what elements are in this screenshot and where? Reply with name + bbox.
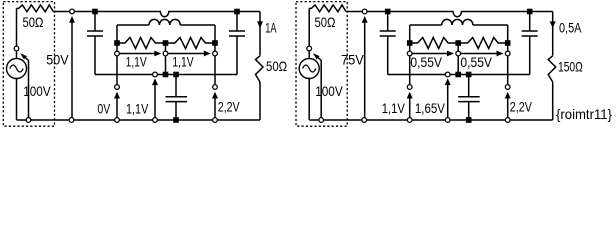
svg-text:50V: 50V <box>46 51 69 67</box>
junction top rail / C1 (right) <box>385 9 391 15</box>
wire node B stub (left) <box>214 43 216 51</box>
svg-text:1,1V: 1,1V <box>126 54 148 70</box>
wire node A lower vertical (left) <box>116 56 118 84</box>
current arrow 1A on load drop (left) <box>257 21 263 28</box>
source block dashed boundary (right) <box>296 2 347 127</box>
terminal arrow tail B (left) <box>213 118 218 123</box>
capacitor C1 left shunt (right) <box>387 14 389 31</box>
voltage arrow 50V line (left) <box>71 18 73 120</box>
voltage arrow 0,55V A-to-M (right) <box>412 53 450 55</box>
wire top rail with hop (left) <box>53 12 260 17</box>
wire mid horizontal (right) <box>388 74 530 76</box>
wire mid horizontal (left) <box>95 74 237 76</box>
resistor Ra series (right) <box>410 38 459 49</box>
wire node M to mid line (left) <box>165 56 167 75</box>
wire load bottom drop (left) <box>259 82 261 120</box>
voltage arrow 1,1V at mid line (left) <box>154 80 156 120</box>
wire node M to mid line (right) <box>457 56 459 75</box>
wire node A stub (right) <box>409 43 411 51</box>
test point B (left) <box>213 85 218 90</box>
wire load bottom drop (right) <box>552 82 554 120</box>
test point mid line (right) <box>445 72 450 77</box>
junction node M (right) <box>455 40 461 46</box>
wire node A stub (left) <box>116 43 118 51</box>
svg-text:75V: 75V <box>341 51 364 67</box>
wire load top drop (left) <box>259 12 261 56</box>
wire source bottom lead (left) <box>16 79 18 121</box>
resistor Ra series (left) <box>117 38 166 49</box>
terminal source/resistor node (left) <box>14 46 19 51</box>
svg-text:0V: 0V <box>97 101 110 117</box>
wire source top lead (left) <box>16 8 18 58</box>
capacitor C2 right shunt (right) <box>529 14 531 31</box>
svg-text:50Ω: 50Ω <box>315 14 336 30</box>
junction node A (left) <box>114 40 120 46</box>
voltage arrow 1,1V M-to-B (left) <box>168 53 207 55</box>
junction node B (left) <box>212 40 218 46</box>
junction top rail / C2 (left) <box>234 9 240 15</box>
node B circle (right) <box>505 51 510 56</box>
junction mid line / node M (left) <box>163 72 169 78</box>
svg-text:1,1V: 1,1V <box>126 101 149 117</box>
junction mid line / C3 (right) <box>466 72 472 78</box>
resistor Rb series (right) <box>458 38 508 49</box>
svg-text:50Ω: 50Ω <box>23 14 44 30</box>
svg-text:0,55V: 0,55V <box>410 54 442 70</box>
capacitor C1 left shunt (left) <box>94 14 96 31</box>
svg-text:100V: 100V <box>23 83 51 99</box>
inductor L coil (left) <box>149 19 180 25</box>
wire top rail with hop (right) <box>346 12 553 17</box>
wire bottom rail (left) <box>17 119 261 121</box>
node A circle (right) <box>407 51 412 56</box>
wire node B stub (right) <box>507 43 509 51</box>
voltage arrow 75V line (right) <box>364 18 366 120</box>
test point A (left) <box>115 85 120 90</box>
terminal output bottom (right) <box>362 118 367 123</box>
junction top rail / C1 (left) <box>92 9 98 15</box>
current arrow 0,5A on load drop (right) <box>550 21 556 28</box>
svg-text:1,1V: 1,1V <box>172 54 194 70</box>
voltage arrow 100V bent line (left) <box>22 55 29 121</box>
junction top rail / C2 (right) <box>527 9 533 15</box>
load resistor 50&#937; (left) <box>256 56 264 82</box>
wire node A lower vertical (right) <box>409 56 411 84</box>
node B circle (left) <box>213 51 218 56</box>
test point A (right) <box>407 85 412 90</box>
voltage arrow 0,55V M-to-B (right) <box>461 53 500 55</box>
voltage arrow 100V bent line (right) <box>315 55 322 121</box>
svg-text:0,55V: 0,55V <box>460 54 492 70</box>
terminal output top (left) <box>70 9 75 14</box>
wire inner box top-left (right) <box>410 24 442 26</box>
svg-text:2,2V: 2,2V <box>218 98 240 114</box>
voltage arrow 2,2V at node B (right) <box>507 94 509 121</box>
terminal 100V arrow tail (left) <box>26 118 31 123</box>
svg-text:1A: 1A <box>265 20 277 36</box>
AC source 100V circle (right) <box>299 59 319 79</box>
voltage arrow 1,1V A-to-M (left) <box>120 53 158 55</box>
AC source 100V circle (left) <box>7 59 27 79</box>
svg-text:{roimtr11}: {roimtr11} <box>556 106 612 122</box>
voltage arrow 2,2V at node B (left) <box>214 94 216 121</box>
node A circle (left) <box>115 51 120 56</box>
junction bottom rail / C3 (left) <box>173 117 179 123</box>
resistor 50&#937; source internal (right) <box>309 5 346 12</box>
test point B (right) <box>505 85 510 90</box>
terminal 100V arrow tail (right) <box>319 118 324 123</box>
terminal arrow tail A (left) <box>115 118 120 123</box>
wire inner box left side (right) <box>409 25 411 43</box>
junction mid line / node M (right) <box>455 72 461 78</box>
wire inner box top-left (left) <box>117 24 149 26</box>
terminal output bottom (left) <box>69 118 74 123</box>
wire inner box top-right (left) <box>180 24 215 26</box>
terminal source/resistor node (right) <box>307 46 312 51</box>
terminal arrow tail mid (right) <box>445 118 450 123</box>
svg-text:1,65V: 1,65V <box>415 100 446 116</box>
inductor L coil (right) <box>442 19 473 25</box>
junction bottom rail / C3 (right) <box>466 117 472 123</box>
svg-text:1,1V: 1,1V <box>382 100 406 116</box>
junction node M (left) <box>163 40 169 46</box>
capacitor C3 bottom (left) <box>175 75 177 97</box>
resistor Rb series (left) <box>166 38 216 49</box>
junction node A (right) <box>407 40 413 46</box>
node M circle (right) <box>456 51 461 56</box>
wire node M stub (right) <box>457 43 459 51</box>
svg-text:50Ω: 50Ω <box>266 58 287 74</box>
svg-text:2,2V: 2,2V <box>510 98 533 114</box>
wire load top drop (right) <box>552 12 554 56</box>
source block dashed boundary (left) <box>3 2 54 127</box>
wire node B lower vertical (left) <box>214 56 216 84</box>
wire node B lower vertical (right) <box>507 56 509 84</box>
wire inner box right side (left) <box>214 25 216 43</box>
wire inner box left side (left) <box>116 25 118 43</box>
svg-text:0,5A: 0,5A <box>559 20 582 36</box>
wire source bottom lead (right) <box>308 79 310 121</box>
junction node B (right) <box>505 40 511 46</box>
voltage arrow 1,1V at node A (right) <box>409 94 411 121</box>
wire inner box right side (right) <box>507 25 509 43</box>
wire bottom rail (right) <box>309 119 553 121</box>
voltage arrow 0V at node A (left) <box>116 94 118 121</box>
voltage arrow 1,65V at mid line (right) <box>447 80 449 120</box>
capacitor C2 right shunt (left) <box>236 14 238 31</box>
junction mid line / C3 (left) <box>173 72 179 78</box>
node M circle (left) <box>163 51 168 56</box>
terminal arrow tail B (right) <box>505 118 510 123</box>
wire inner box top-right (right) <box>473 24 508 26</box>
wire node M stub (left) <box>165 43 167 51</box>
svg-text:100V: 100V <box>315 83 343 99</box>
resistor 50&#937; source internal (left) <box>17 5 54 12</box>
terminal arrow tail A (right) <box>407 118 412 123</box>
svg-text:150Ω: 150Ω <box>558 58 583 74</box>
terminal arrow tail mid (left) <box>153 118 158 123</box>
test point mid line (left) <box>153 72 158 77</box>
load resistor 150&#937; (right) <box>548 56 556 82</box>
wire source top lead (right) <box>308 8 310 58</box>
terminal output top (right) <box>362 9 367 14</box>
capacitor C3 bottom (right) <box>468 75 470 97</box>
